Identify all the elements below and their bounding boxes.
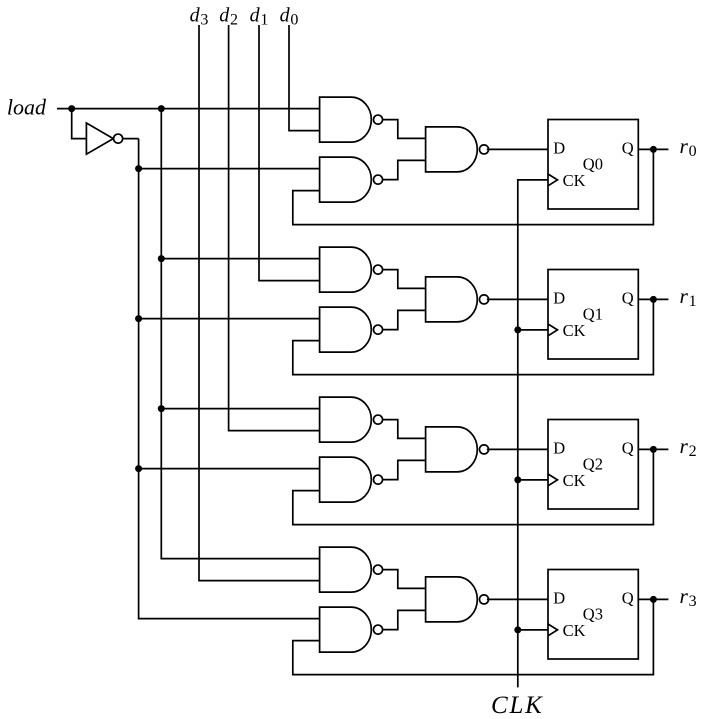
wire CLK to CK pin Q3: [518, 629, 548, 631]
wire load vertical: [161, 109, 319, 559]
svg-text:CK: CK: [563, 471, 586, 490]
wire load to stage 1 NAND: [161, 258, 319, 260]
wire U3b output to U3c: [383, 460, 426, 479]
flip-flop Q2: [548, 420, 638, 510]
wire U4c output to D input: [487, 598, 548, 600]
wire Q0 output: [638, 148, 668, 150]
node CLK tap stage 3: [514, 626, 521, 633]
nand gate U1c: [426, 127, 478, 172]
wire inverter output: [123, 138, 139, 140]
clock wedge Q2: [548, 474, 558, 486]
wire inverted-load to stage 2 NAND: [139, 468, 320, 470]
wire inverted-load to stage 0 NAND: [139, 168, 320, 170]
wire U2b output to U2c: [383, 310, 426, 329]
node r3 feedback junction: [650, 596, 657, 603]
node CLK tap stage 2: [514, 476, 521, 483]
wire U2c output to D input: [487, 298, 548, 300]
wire U1a output to U1c: [383, 120, 426, 139]
nand gate U3b: [320, 457, 372, 502]
wire feedback r2 to U3b: [293, 449, 654, 524]
flip-flop Q3: [548, 570, 638, 660]
svg-text:D: D: [553, 439, 565, 458]
node inverted-load tap stage 0: [135, 165, 142, 172]
svg-text:CK: CK: [563, 621, 586, 640]
flip-flop Q1: [548, 270, 638, 360]
node r0 feedback junction: [650, 146, 657, 153]
wire CLK to CK pin Q2: [518, 479, 548, 481]
wire U2a output to U2c: [383, 270, 426, 289]
node load tap stage 1: [158, 255, 165, 262]
svg-text:Q0: Q0: [583, 155, 603, 174]
wire load: [57, 108, 320, 110]
wire U4a output to U4c: [383, 570, 426, 589]
svg-text:Q2: Q2: [583, 455, 603, 474]
node load-inverter junction: [68, 105, 75, 112]
nand gate U1a: [320, 97, 372, 142]
svg-text:Q: Q: [622, 289, 634, 308]
wire Q3 output: [638, 598, 668, 600]
node load tap stage 2: [158, 405, 165, 412]
node inverted-load tap stage 2: [135, 465, 142, 472]
wire d3 input: [199, 25, 320, 581]
wire CLK vertical: [518, 180, 548, 688]
node load vertical junction: [158, 105, 165, 112]
clock wedge Q0: [548, 174, 558, 186]
wire inverted-load vertical: [139, 139, 320, 619]
wire inverted-load to stage 1 NAND: [139, 318, 320, 320]
wire Q2 output: [638, 448, 668, 450]
svg-text:Q: Q: [622, 139, 634, 158]
wire feedback r3 to U4b: [293, 599, 654, 674]
svg-text:D: D: [553, 139, 565, 158]
wire U1c output to D input: [487, 148, 548, 150]
svg-text:CK: CK: [563, 321, 586, 340]
svg-text:Q: Q: [622, 589, 634, 608]
wire U3a output to U3c: [383, 420, 426, 439]
wire feedback r0 to U1b: [293, 149, 654, 224]
node inverted-load tap stage 1: [135, 315, 142, 322]
svg-text:Q: Q: [622, 439, 634, 458]
wire U3c output to D input: [487, 448, 548, 450]
clock wedge Q1: [548, 324, 558, 336]
wire inverter input: [72, 109, 87, 139]
nand gate U2c: [426, 277, 478, 322]
clock wedge Q3: [548, 624, 558, 636]
svg-text:load: load: [7, 94, 47, 119]
nand gate U4a: [320, 547, 372, 592]
svg-text:D: D: [553, 589, 565, 608]
nand gate U3a: [320, 397, 372, 442]
wire feedback r1 to U2b: [293, 299, 654, 374]
node r1 feedback junction: [650, 296, 657, 303]
wire d2 input: [229, 25, 320, 431]
wire Q1 output: [638, 298, 668, 300]
inverter U5: [86, 123, 113, 154]
svg-text:Q1: Q1: [583, 305, 603, 324]
node r2 feedback junction: [650, 446, 657, 453]
wire CLK to CK pin Q1: [518, 329, 548, 331]
nand gate U3c: [426, 427, 478, 472]
svg-text:Q3: Q3: [583, 605, 603, 624]
nand gate U1b: [320, 157, 372, 202]
wire d0 input: [289, 25, 320, 131]
nand gate U2a: [320, 247, 372, 292]
wire d1 input: [259, 25, 320, 281]
nand gate U4c: [426, 577, 478, 622]
node CLK tap stage 1: [514, 326, 521, 333]
svg-text:D: D: [553, 289, 565, 308]
wire U1b output to U1c: [383, 160, 426, 179]
nand gate U2b: [320, 307, 372, 352]
svg-text:CK: CK: [563, 171, 586, 190]
nand gate U4b: [320, 607, 372, 652]
wire load to stage 2 NAND: [161, 408, 319, 410]
svg-text:CLK: CLK: [491, 692, 544, 719]
wire U4b output to U4c: [383, 610, 426, 629]
flip-flop Q0: [548, 120, 638, 210]
